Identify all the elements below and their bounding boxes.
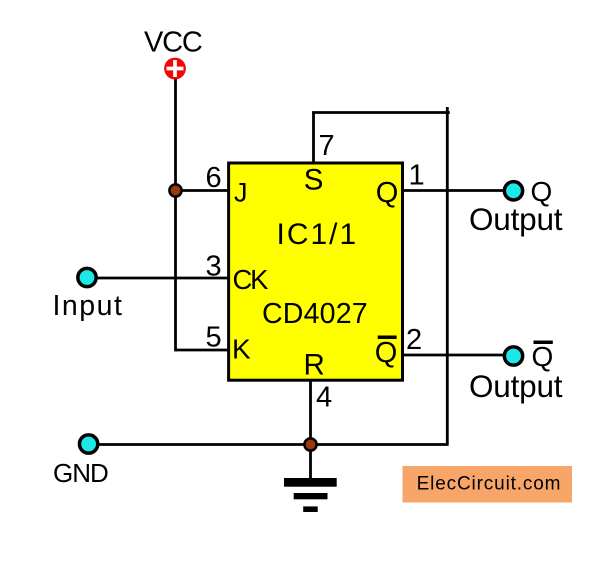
Q output terminal <box>504 182 522 200</box>
watermark ElecCircuit.com <box>403 466 573 503</box>
junction dot at J/K branch node <box>169 184 181 196</box>
overline of pin label Qbar <box>378 336 397 340</box>
wire K branch to pin K <box>176 349 230 352</box>
junction dot at ground node <box>304 438 316 450</box>
wire ground stem <box>309 445 312 479</box>
svg-text:Q: Q <box>376 177 399 209</box>
ground symbol <box>284 478 337 512</box>
svg-text:S: S <box>304 164 324 197</box>
wire GND terminal to right rail <box>99 443 449 446</box>
wire top horizontal from S to right rail <box>312 111 450 114</box>
svg-text:3: 3 <box>206 251 222 283</box>
wire pin Qbar to Qbar output terminal <box>402 354 505 357</box>
svg-text:ElecCircuit.com: ElecCircuit.com <box>417 473 562 494</box>
svg-text:Input: Input <box>53 290 124 322</box>
Input terminal <box>78 268 96 286</box>
svg-text:GND: GND <box>53 458 108 488</box>
wire pin R down to ground junction <box>309 380 312 445</box>
wire pin Q to Q output terminal <box>402 189 505 192</box>
Qbar output terminal <box>504 347 522 365</box>
svg-text:J: J <box>234 178 248 208</box>
svg-text:2: 2 <box>406 324 422 356</box>
svg-text:Q: Q <box>375 337 398 369</box>
svg-text:Output: Output <box>469 201 563 237</box>
wire junction down to K branch <box>174 189 177 351</box>
svg-text:CD4027: CD4027 <box>262 298 368 330</box>
wire junction to pin J <box>176 189 230 192</box>
svg-text:IC1/1: IC1/1 <box>277 218 359 251</box>
VCC power terminal <box>164 58 186 80</box>
svg-text:R: R <box>304 349 325 382</box>
svg-text:7: 7 <box>319 130 335 162</box>
overline of label Qbar <box>534 340 553 344</box>
svg-text:4: 4 <box>316 382 332 414</box>
GND terminal <box>79 435 97 453</box>
svg-text:6: 6 <box>206 162 222 194</box>
svg-text:1: 1 <box>409 160 425 192</box>
wire Input terminal to pin CK <box>97 277 229 280</box>
wire right vertical rail S to ground <box>446 107 449 445</box>
svg-text:K: K <box>232 334 251 365</box>
wire VCC terminal down to J/K junction <box>174 79 177 191</box>
svg-text:CK: CK <box>233 264 270 295</box>
svg-text:Output: Output <box>469 368 563 404</box>
svg-text:5: 5 <box>206 322 222 354</box>
svg-text:VCC: VCC <box>144 27 202 59</box>
wire pin S up <box>312 113 315 164</box>
IC U1 body CD4027 <box>229 163 403 380</box>
